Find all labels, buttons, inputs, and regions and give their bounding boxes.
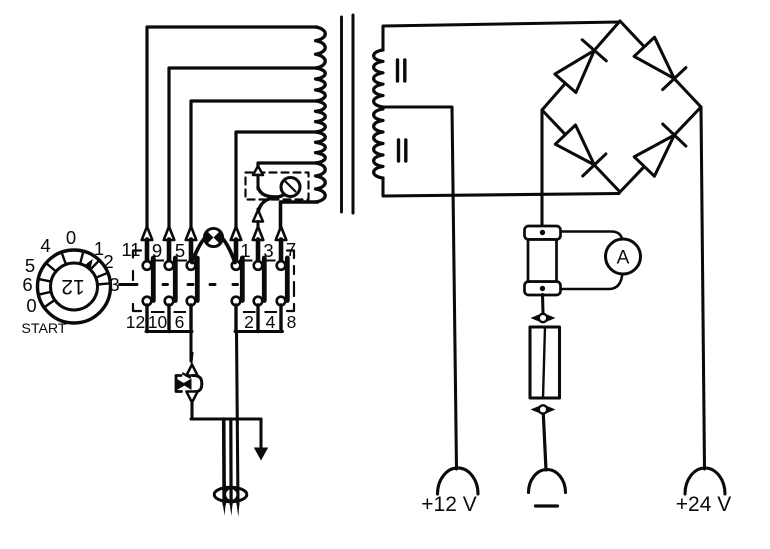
svg-text:+12 V: +12 V bbox=[421, 493, 476, 516]
overline for 10 bbox=[151, 311, 165, 313]
secondary center tap to +12V bbox=[383, 107, 457, 469]
wire: bridge minus to shunt bbox=[540, 110, 543, 227]
wire: terminal 8 to bus bbox=[279, 305, 282, 332]
connector arrow above terminal 3 bbox=[253, 227, 264, 241]
mains switch Q1 bridge blade bbox=[193, 376, 202, 393]
svg-text:12: 12 bbox=[61, 275, 84, 298]
wire: terminal 4 to bus bbox=[256, 305, 259, 332]
switch contact pair 9-10: top circle bbox=[165, 261, 174, 270]
mains switch Q1 lower contact bbox=[186, 392, 197, 403]
terminal stem 1 bbox=[234, 240, 239, 262]
connector arrow above terminal 9 bbox=[164, 227, 175, 241]
switch contact pair 3-4: moving bar bbox=[262, 258, 267, 301]
wire: connector to minus terminal bbox=[543, 414, 546, 470]
underline for 3 bbox=[262, 260, 276, 262]
ammeter PA1 bbox=[606, 239, 641, 274]
svg-text:6: 6 bbox=[22, 274, 32, 295]
connector arrow above terminal 7 bbox=[276, 227, 287, 241]
svg-text:0: 0 bbox=[26, 295, 36, 316]
wire: shunt to connector bbox=[541, 295, 545, 314]
wire: terminal 6 to bus bbox=[189, 305, 192, 332]
svg-text:7: 7 bbox=[286, 239, 296, 260]
rotary dial outer ring bbox=[38, 250, 111, 323]
svg-text:START: START bbox=[21, 321, 67, 337]
cable wire 1 bbox=[222, 419, 226, 504]
wire: tap 5 toward thermal cutout bbox=[258, 163, 317, 167]
wire: terminal 2 to bus bbox=[234, 305, 237, 332]
terminal stem 9 bbox=[167, 240, 172, 262]
overline for 6 bbox=[174, 311, 187, 313]
switch contact pair 7-8: top circle bbox=[277, 261, 286, 270]
secondary top lead to bridge bbox=[383, 22, 619, 50]
secondary bottom lead to bridge bbox=[383, 178, 619, 196]
underline for 1 bbox=[239, 260, 253, 262]
terminal stem 3 bbox=[256, 240, 261, 262]
diode VD1 (left-top arm) bbox=[555, 50, 594, 92]
svg-text:4: 4 bbox=[266, 312, 276, 332]
cable grommet / plug bbox=[214, 487, 247, 502]
svg-text:A: A bbox=[617, 248, 630, 269]
svg-text:1: 1 bbox=[240, 240, 250, 261]
thermal cutout sensing disc bbox=[281, 178, 300, 197]
wire: tap 1 to terminal 11 bbox=[147, 27, 317, 228]
svg-text:11: 11 bbox=[121, 239, 140, 260]
wire: terminal 10 to bus bbox=[167, 305, 170, 332]
underline for 9 bbox=[151, 260, 165, 262]
svg-text:10: 10 bbox=[148, 312, 168, 332]
svg-text:12: 12 bbox=[126, 312, 145, 332]
svg-text:6: 6 bbox=[175, 312, 185, 332]
connector arrow above terminal 5 bbox=[186, 227, 197, 241]
left bottom bus bbox=[146, 330, 192, 333]
mains switch actuator handle bbox=[176, 376, 182, 392]
wire: mains switch to line bus bbox=[190, 402, 193, 419]
primary winding bottom lead bbox=[281, 202, 318, 228]
switch contact pair 5-6: moving bar bbox=[195, 258, 200, 301]
bridge rectifier diamond bbox=[542, 21, 701, 192]
switch contact pair 3-4: top circle bbox=[254, 261, 263, 270]
+24V output terminal bbox=[685, 468, 725, 494]
right bottom bus bbox=[235, 330, 283, 333]
wire: bus to mains switch bbox=[189, 332, 192, 362]
shunt RS1 bbox=[525, 226, 561, 240]
switch contact pair 11-12: top circle bbox=[143, 261, 152, 270]
lamp wire arc between terminals 5 and 1 bbox=[192, 233, 235, 262]
detachable connector X2 bbox=[531, 406, 540, 413]
secondary winding upper section bbox=[374, 50, 383, 107]
label II (lower secondary) bbox=[397, 140, 400, 161]
switch S1 dashed enclosure bbox=[133, 251, 294, 312]
svg-text:2: 2 bbox=[244, 312, 254, 332]
switch contact pair 9-10: moving bar bbox=[173, 258, 178, 301]
wire: tap 2 to terminal 9 bbox=[169, 68, 317, 228]
minus sign bbox=[536, 504, 558, 507]
primary winding W1 bbox=[316, 27, 326, 202]
rotary dial inner circle bbox=[51, 263, 98, 310]
switch contact pair 5-6: top circle bbox=[187, 261, 196, 270]
switch contact pair 7-8: moving bar bbox=[285, 258, 290, 301]
wire: bridge plus to +24V terminal bbox=[701, 107, 705, 469]
svg-text:+24 V: +24 V bbox=[676, 493, 731, 516]
mains switch Q1 upper contact bbox=[191, 352, 194, 366]
connector arrow above terminal 11 bbox=[142, 227, 153, 241]
ammeter loop wires bbox=[560, 232, 623, 242]
thermal cutout dashed enclosure bbox=[246, 173, 309, 200]
label II (upper secondary) bbox=[396, 60, 399, 81]
switch contact pair 1-2: moving bar bbox=[240, 258, 245, 301]
switch contact pair 7-8: bottom circle bbox=[277, 297, 286, 306]
terminal stem 7 bbox=[279, 240, 284, 262]
diode VD4 (bottom-right arm) bbox=[634, 135, 674, 176]
svg-text:0: 0 bbox=[66, 227, 76, 248]
transformer core bbox=[340, 17, 343, 212]
svg-text:5: 5 bbox=[25, 255, 35, 276]
svg-text:2: 2 bbox=[103, 251, 113, 272]
detachable connector X1 bbox=[531, 314, 540, 321]
mains connection arrow bbox=[259, 419, 262, 449]
wire: tap 4 to terminal 1 bbox=[236, 132, 317, 228]
switch contact pair 5-6: bottom circle bbox=[187, 297, 196, 306]
connector arrow into thermal cutout bbox=[253, 166, 263, 175]
fuse FU1 bbox=[530, 327, 560, 398]
underline for 5 bbox=[174, 260, 188, 262]
svg-text:3: 3 bbox=[109, 274, 119, 295]
wire: tap 3 to terminal 5 bbox=[191, 101, 317, 228]
svg-text:8: 8 bbox=[287, 312, 297, 332]
cable wire 3 (from switch bus) bbox=[237, 332, 239, 505]
secondary winding lower section bbox=[374, 109, 383, 178]
switch contact pair 9-10: bottom circle bbox=[165, 297, 174, 306]
+12V output terminal bbox=[438, 468, 479, 494]
dash after dial label 3 bbox=[120, 283, 138, 286]
svg-text:5: 5 bbox=[175, 240, 185, 261]
svg-text:4: 4 bbox=[40, 235, 50, 256]
diode VD2 (top-right arm) bbox=[634, 37, 674, 78]
connector arrow above terminal 1 bbox=[231, 227, 242, 241]
switch contact pair 1-2: bottom circle bbox=[232, 297, 241, 306]
thermal cutout output lead (curved) bbox=[258, 187, 284, 197]
rotary dial position pointer bbox=[84, 259, 93, 270]
terminal stem 11 bbox=[145, 240, 150, 262]
switch contact pair 1-2: top circle bbox=[232, 261, 241, 270]
mains line bus bbox=[191, 417, 261, 420]
switch contact pair 3-4: bottom circle bbox=[254, 297, 263, 306]
mechanical link dashed line from dial bbox=[163, 283, 238, 286]
switch contact pair 11-12: bottom circle bbox=[143, 297, 152, 306]
overline for 2 bbox=[243, 311, 256, 313]
rotary dial scale ticks bbox=[38, 251, 110, 307]
cable wire 2 bbox=[229, 419, 233, 504]
switch contact pair 11-12: moving bar bbox=[151, 258, 156, 301]
wire: thermal cutout to terminal 3 bbox=[256, 209, 259, 212]
svg-text:9: 9 bbox=[152, 240, 162, 261]
indicator lamp HL1 bbox=[204, 228, 222, 246]
terminal stem 5 bbox=[189, 240, 194, 262]
wire: terminal 12 to bus bbox=[145, 305, 148, 332]
overline for 4 bbox=[265, 311, 278, 313]
svg-text:3: 3 bbox=[263, 240, 273, 261]
minus output terminal bbox=[529, 470, 566, 493]
diode VD3 (left-bottom arm) bbox=[555, 125, 594, 165]
